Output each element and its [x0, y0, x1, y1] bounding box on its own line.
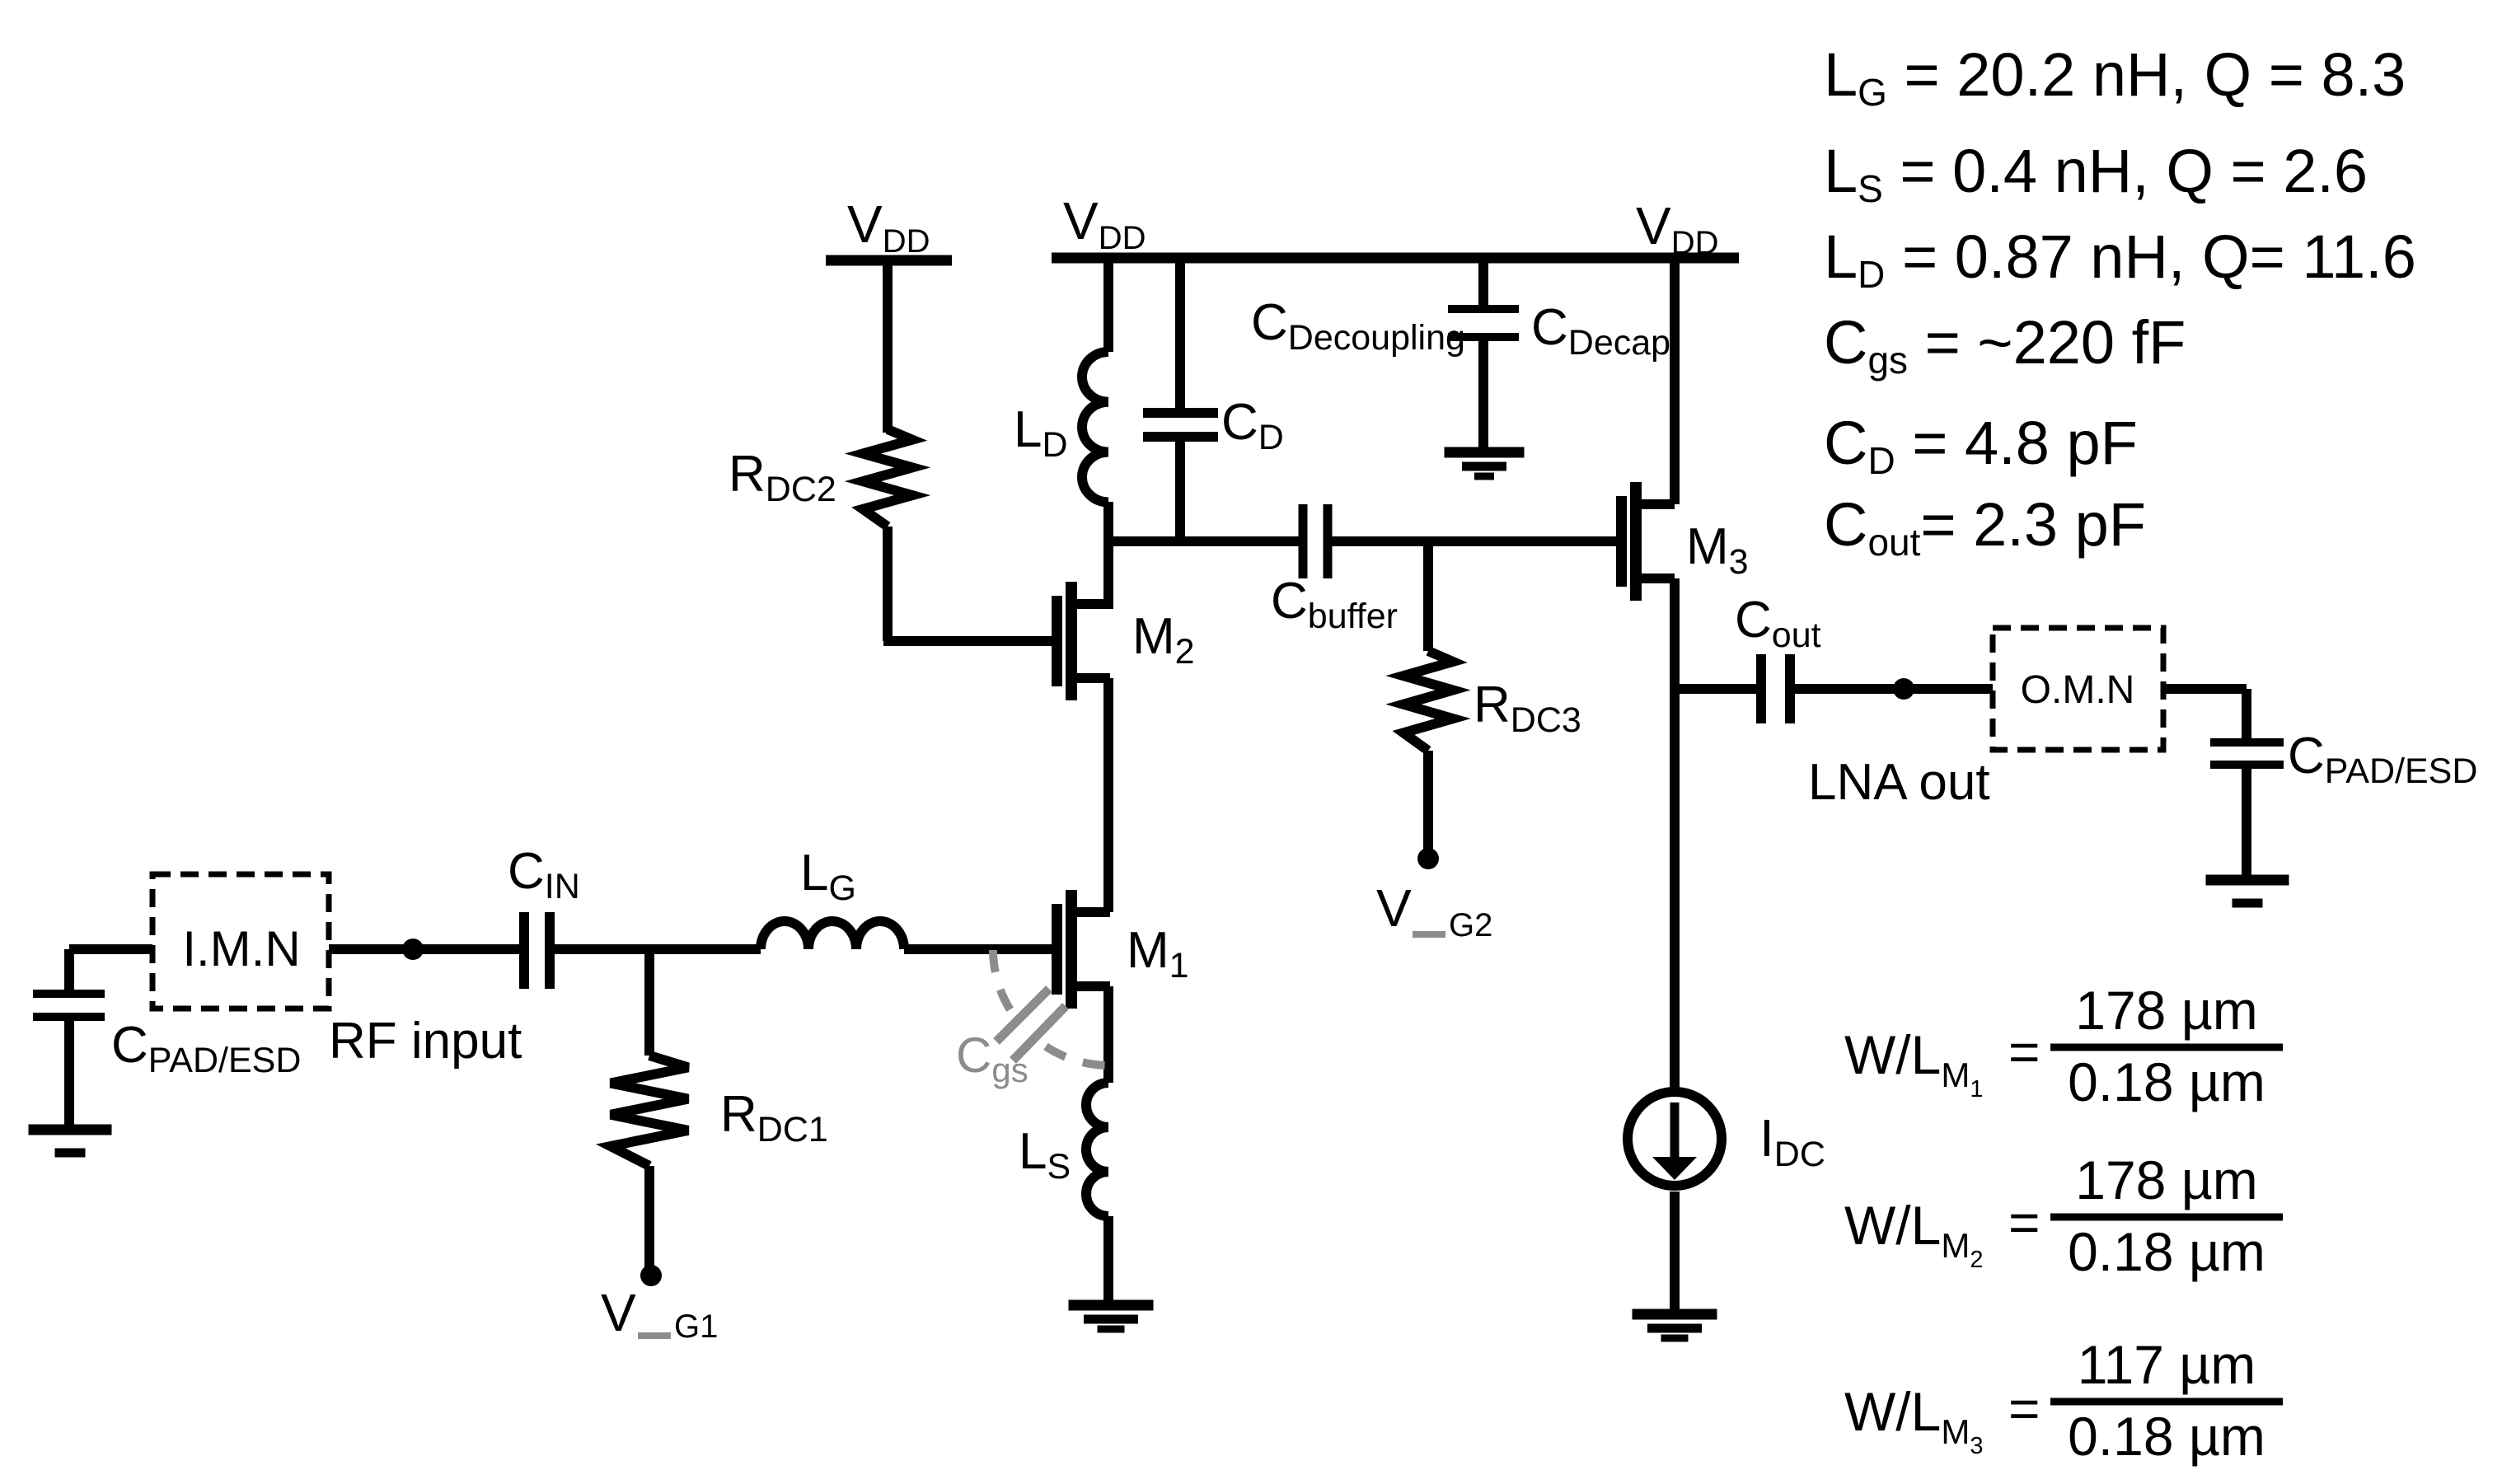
svg-text:LNA out: LNA out [1808, 754, 1990, 811]
svg-text:V: V [1376, 878, 1412, 938]
svg-text:V: V [601, 1283, 636, 1342]
svg-text:178 µm: 178 µm [2075, 980, 2257, 1041]
svg-text:RF input: RF input [329, 1013, 522, 1070]
svg-text:117 µm: 117 µm [2078, 1334, 2256, 1395]
svg-text:178 µm: 178 µm [2075, 1149, 2257, 1210]
svg-text:O.M.N: O.M.N [2021, 668, 2135, 712]
svg-text:0.18 µm: 0.18 µm [2068, 1221, 2265, 1282]
svg-text:G2: G2 [1449, 907, 1492, 943]
svg-text:LG = 20.2 nH, Q = 8.3: LG = 20.2 nH, Q = 8.3 [1824, 40, 2406, 114]
svg-text:0.18 µm: 0.18 µm [2068, 1406, 2265, 1467]
svg-text:=: = [2008, 1378, 2040, 1439]
svg-text:=: = [2008, 1021, 2040, 1082]
svg-text:G1: G1 [674, 1308, 718, 1345]
svg-text:0.18 µm: 0.18 µm [2068, 1051, 2265, 1112]
svg-text:=: = [2008, 1191, 2040, 1252]
svg-text:LS = 0.4 nH, Q = 2.6: LS = 0.4 nH, Q = 2.6 [1824, 137, 2368, 210]
svg-text:I.M.N: I.M.N [182, 921, 300, 976]
svg-text:LD = 0.87 nH, Q= 11.6: LD = 0.87 nH, Q= 11.6 [1824, 222, 2416, 296]
